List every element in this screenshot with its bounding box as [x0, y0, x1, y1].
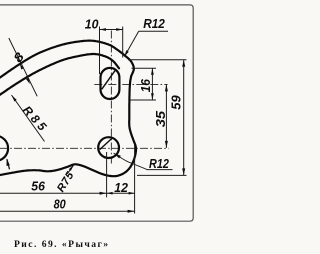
svg-text:35: 35 — [153, 110, 168, 127]
svg-text:80: 80 — [54, 197, 67, 212]
svg-text:12: 12 — [114, 180, 128, 195]
svg-text:16: 16 — [138, 78, 153, 92]
svg-text:Рис. 69. «Рычаг»: Рис. 69. «Рычаг» — [14, 239, 110, 250]
svg-text:59: 59 — [169, 95, 184, 110]
svg-text:56: 56 — [31, 178, 45, 193]
svg-text:R12: R12 — [143, 16, 165, 31]
svg-text:10: 10 — [85, 17, 99, 32]
svg-text:R12: R12 — [149, 156, 170, 171]
